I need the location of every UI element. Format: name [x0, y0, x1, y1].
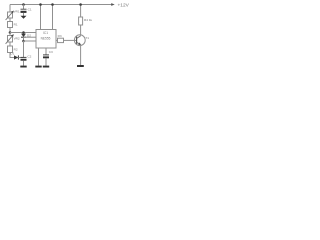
svg-text:R4 1k: R4 1k	[84, 18, 93, 22]
resistor R2	[8, 46, 13, 53]
diode D2	[21, 34, 26, 38]
ground of emitter	[77, 65, 84, 67]
svg-text:T1: T1	[85, 36, 89, 40]
wire R4 to rail	[80, 5, 82, 18]
capacitor C3	[43, 55, 49, 58]
potentiometer VR1	[8, 12, 13, 18]
node pin2 branch	[22, 40, 25, 43]
wire VR2 to R2	[9, 42, 11, 46]
wire R2 down to D1	[10, 53, 14, 58]
wire node to pin2 of IC1	[24, 40, 37, 42]
wire collector of T1 to R4	[80, 25, 82, 36]
diode D1	[14, 55, 18, 59]
wire pin3 of IC1 to R3	[56, 39, 58, 41]
svg-text:C1: C1	[28, 7, 32, 11]
svg-text:R3: R3	[58, 34, 62, 38]
svg-text:R1: R1	[14, 23, 18, 27]
node pin4 rail	[39, 3, 42, 6]
arrowhead of +12V rail	[111, 3, 115, 6]
svg-text:NE555: NE555	[41, 36, 51, 40]
ground of C3	[43, 66, 49, 68]
wire C3 to ground	[45, 58, 47, 65]
ground of C2	[20, 66, 26, 68]
transistor T1	[74, 35, 85, 46]
svg-text:VR1: VR1	[14, 9, 20, 13]
node pin8 rail	[51, 3, 54, 6]
svg-text:C2: C2	[27, 55, 31, 59]
potentiometer VR2 arrow	[6, 34, 14, 44]
wire C1 to ground	[23, 13, 25, 16]
wire D2 cathode to pin6 of IC1	[24, 36, 37, 38]
wire node down to VR2	[9, 33, 11, 36]
wire pin5 of IC1 to C3	[45, 48, 47, 55]
potentiometer VR2	[8, 36, 13, 43]
IC IC1 NE555 timer	[36, 30, 56, 49]
wire pin4 of IC1 to rail	[40, 5, 42, 30]
wire VR1 to R1	[9, 18, 11, 22]
capacitor C1	[21, 9, 27, 13]
node junction left	[9, 31, 12, 34]
wire D1 to C2 node	[18, 57, 23, 59]
resistor R1	[8, 22, 13, 28]
resistor R3	[58, 38, 64, 42]
wire node to pin7 of IC1	[10, 32, 36, 34]
wire emitter of T1 to ground	[80, 45, 82, 65]
wire rail down to VR1	[9, 5, 11, 13]
svg-text:VR2: VR2	[14, 36, 20, 40]
wire rail to C1	[23, 5, 25, 10]
svg-text:+12V: +12V	[118, 3, 130, 9]
node collector rail	[79, 3, 82, 6]
wire pin8 of IC1 to rail	[52, 5, 54, 30]
wire top +12V rail	[10, 4, 112, 6]
resistor R4	[79, 17, 83, 25]
wire R3 to base of T1	[64, 39, 77, 41]
node D2 top	[22, 31, 25, 34]
svg-text:C3: C3	[49, 50, 53, 54]
ground of pin1	[35, 66, 41, 68]
wire C2 to ground	[23, 61, 25, 66]
wire node down to C2	[23, 41, 25, 57]
wire D2 down to node	[23, 37, 25, 41]
potentiometer VR1 arrow	[6, 11, 14, 20]
capacitor C2	[21, 57, 27, 60]
svg-text:D1: D1	[10, 51, 14, 55]
wire R1 down to node	[9, 28, 11, 33]
wire pin1 of IC1 to ground	[38, 48, 40, 66]
node rail C1 branch	[22, 3, 25, 6]
svg-text:IC1: IC1	[43, 31, 48, 35]
ground of C1	[21, 16, 27, 19]
